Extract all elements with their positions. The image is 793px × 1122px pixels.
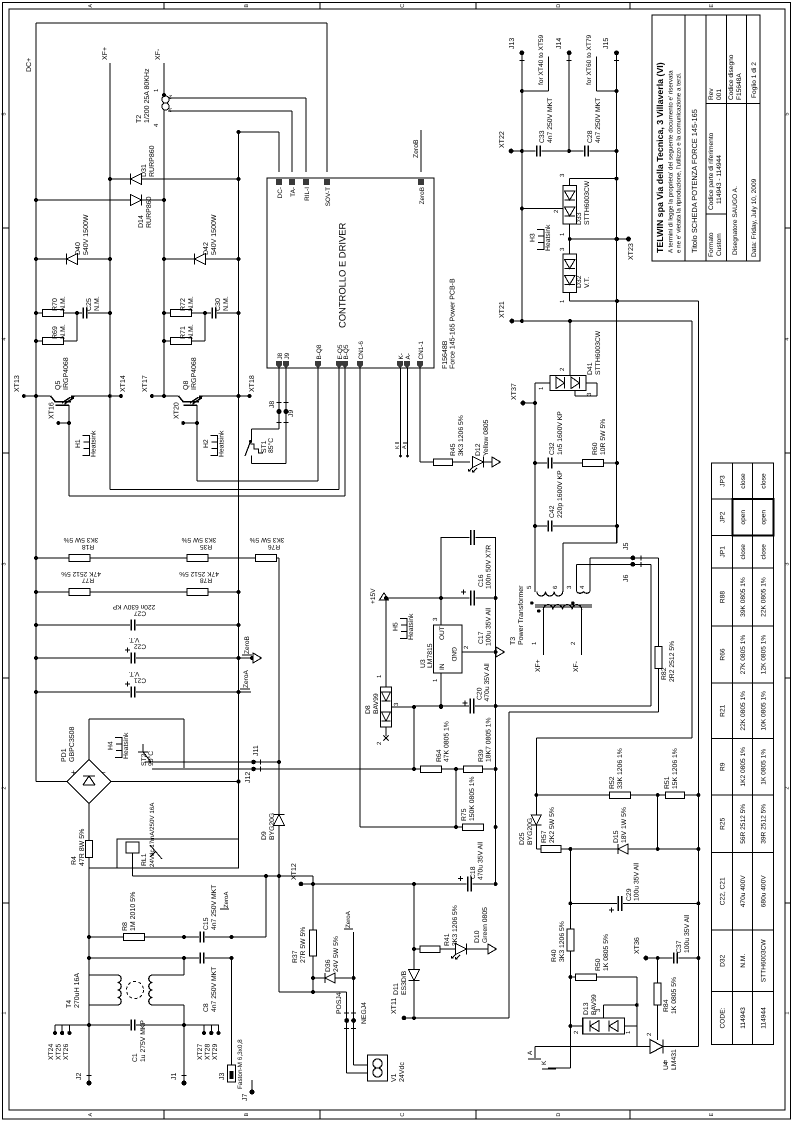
svg-text:XF+: XF+: [535, 659, 542, 672]
svg-text:ZeroA: ZeroA: [243, 669, 250, 688]
svg-text:XT29: XT29: [212, 1044, 219, 1060]
svg-text:4: 4: [784, 338, 790, 341]
connector J2: [76, 1073, 92, 1086]
svg-text:N.M.: N.M.: [188, 296, 195, 311]
svg-text:F15648B: F15648B: [442, 340, 449, 369]
svg-text:XF+: XF+: [102, 47, 109, 60]
svg-text:R35: R35: [200, 543, 212, 550]
svg-text:open: open: [760, 510, 767, 525]
wire C20 to J6 rail: [650, 564, 652, 706]
svg-text:540V 1500W: 540V 1500W: [83, 214, 90, 255]
dual diode D13 BAV99: [570, 994, 636, 1034]
capacitor C22 V.T. and net ZeroB: [34, 635, 261, 663]
zener D36 24V 5W 5%: [313, 936, 356, 983]
svg-text:100n 50V X7R: 100n 50V X7R: [486, 545, 493, 589]
svg-text:100u 35V All: 100u 35V All: [684, 914, 691, 953]
capacitor C42 220p 1600V KP: [533, 470, 619, 532]
svg-text:24Vdc 17mA/250V 16A: 24Vdc 17mA/250V 16A: [149, 802, 156, 867]
rail through R40: [551, 849, 574, 1028]
svg-text:1K2 0805 1%: 1K2 0805 1%: [740, 747, 747, 787]
connector J13: [509, 38, 524, 321]
resistor R69 N.M.: [34, 311, 79, 344]
svg-text:RIL-I: RIL-I: [304, 187, 311, 201]
svg-text:IRGP4068: IRGP4068: [191, 357, 198, 390]
svg-text:GND: GND: [450, 647, 457, 662]
svg-text:Codice parte di riferimento: Codice parte di riferimento: [708, 132, 715, 210]
controller top pins DC- TA- RIL-I SOV-T ZeroB: [276, 179, 426, 206]
svg-text:D15: D15: [613, 830, 620, 843]
svg-text:E: E: [709, 4, 715, 8]
svg-text:BYG20G: BYG20G: [527, 818, 534, 845]
svg-text:T2: T2: [136, 115, 143, 123]
svg-text:56R 2512 5%: 56R 2512 5%: [740, 804, 747, 844]
connector J6 and wire: [577, 562, 651, 582]
svg-text:ZeroB: ZeroB: [244, 635, 251, 654]
svg-text:B-Q5: B-Q5: [343, 344, 350, 359]
svg-text:Custom: Custom: [716, 233, 723, 256]
svg-text:1K 0805 1%: 1K 0805 1%: [760, 749, 767, 785]
wire XT12 branch to D11 XT11: [413, 884, 415, 1018]
terminal XT12 and wire row: [291, 863, 496, 886]
svg-text:K: K: [541, 1060, 548, 1065]
svg-text:4n7 250V MKT: 4n7 250V MKT: [547, 98, 554, 143]
svg-text:XT21: XT21: [499, 301, 506, 318]
resistor R84 1K 0805 5%: [654, 958, 678, 1040]
svg-text:33K 1206 1%: 33K 1206 1%: [617, 748, 624, 789]
svg-text:XT11: XT11: [391, 998, 398, 1014]
svg-text:J7: J7: [242, 1094, 249, 1102]
svg-text:XF-: XF-: [573, 661, 580, 672]
svg-text:D41: D41: [587, 362, 594, 375]
svg-text:STTH6003CW: STTH6003CW: [595, 330, 602, 375]
svg-text:D: D: [556, 4, 562, 8]
capacitor C20 470u 35V All: [414, 663, 651, 769]
svg-text:XT14: XT14: [120, 375, 127, 392]
svg-text:N.M.: N.M.: [740, 954, 747, 968]
resistor R8 1M 2010 5%: [87, 892, 266, 941]
wire D32 pin1 to right rail: [570, 299, 699, 1046]
svg-text:R39: R39: [478, 749, 485, 762]
svg-text:10K 0805 1%: 10K 0805 1%: [760, 691, 767, 731]
svg-text:2: 2: [2, 787, 8, 790]
diode D40 540V 1500W: [34, 214, 112, 264]
svg-text:ST1: ST1: [261, 440, 268, 453]
svg-text:Data: Friday, July 10, 2009: Data: Friday, July 10, 2009: [751, 178, 758, 257]
svg-text:J8: J8: [269, 401, 276, 408]
wire XF+ to E-Q5: [110, 368, 339, 490]
svg-text:C: C: [400, 1113, 406, 1117]
zener D15 18V 1W 5%: [613, 807, 628, 854]
terminals XT24 XT25 XT26: [48, 1025, 72, 1060]
svg-text:R8: R8: [122, 922, 129, 931]
resistor R70 N.M. and capacitor C25 N.M.: [34, 296, 112, 318]
svg-text:e ne e' vietata la riproduzion: e ne e' vietata la riproduzione, l'utili…: [676, 72, 683, 253]
svg-text:R71: R71: [180, 326, 187, 339]
svg-text:RL1: RL1: [141, 853, 148, 866]
wire ST2 to J12 / R64 R39 row: [152, 767, 496, 783]
svg-text:XT16: XT16: [49, 402, 56, 419]
svg-text:Power Transformer: Power Transformer: [517, 585, 525, 645]
svg-text:N.M.: N.M.: [94, 296, 101, 311]
svg-text:V.T.: V.T.: [128, 636, 139, 643]
svg-text:39K 0805 1%: 39K 0805 1%: [740, 577, 747, 617]
svg-text:XF-: XF-: [155, 48, 162, 60]
svg-text:E: E: [709, 1112, 715, 1116]
svg-text:D32: D32: [719, 954, 726, 966]
svg-text:close: close: [760, 544, 767, 560]
svg-text:D: D: [556, 1113, 562, 1117]
svg-text:LM431: LM431: [671, 1049, 678, 1070]
svg-text:XT26: XT26: [63, 1044, 70, 1060]
svg-text:85°C: 85°C: [268, 438, 275, 453]
svg-text:+15V: +15V: [370, 588, 377, 604]
thermostat ST1 85C: [245, 438, 275, 458]
resistor R4 47R 8W 5%: [71, 804, 117, 869]
svg-text:470u 400V: 470u 400V: [740, 875, 747, 908]
left rail to T4: [88, 868, 90, 975]
svg-text:PD1: PD1: [61, 748, 68, 762]
wire R51/R52 junction down: [657, 795, 659, 849]
connector J3 Faston: [219, 958, 244, 1089]
wire ST2 to J11: [152, 745, 281, 764]
svg-text:IRGP4068: IRGP4068: [63, 357, 70, 390]
svg-text:J3: J3: [219, 1073, 226, 1081]
svg-text:ZeroB: ZeroB: [413, 139, 420, 158]
svg-text:4n7 250V MKT: 4n7 250V MKT: [595, 98, 602, 143]
svg-text:27R 5W 5%: 27R 5W 5%: [300, 927, 307, 963]
svg-text:220p 1600V KP: 220p 1600V KP: [557, 470, 564, 518]
svg-text:R18: R18: [82, 543, 94, 550]
svg-text:BYG20G: BYG20G: [269, 813, 276, 840]
svg-text:BAV99: BAV99: [373, 693, 380, 714]
svg-text:C18: C18: [470, 866, 477, 879]
wire DC+ top rail to SOV-T: [36, 23, 327, 172]
svg-text:OUT: OUT: [439, 626, 446, 640]
connector J8 J9 below controller: [252, 368, 296, 464]
svg-text:J1: J1: [171, 1073, 178, 1081]
resistor R64 47K 0805 1%: [412, 721, 458, 772]
shunt regulator U4 LM431: [535, 1032, 698, 1070]
svg-text:1u 275V MKP: 1u 275V MKP: [140, 1020, 147, 1062]
battery V1 24Vdc: [368, 1055, 407, 1082]
svg-text:H2: H2: [203, 439, 210, 448]
svg-text:XT22: XT22: [499, 131, 506, 148]
svg-text:1K 0805 5%: 1K 0805 5%: [671, 977, 678, 1014]
svg-text:GBPC3508: GBPC3508: [69, 726, 76, 762]
svg-text:D13: D13: [583, 1002, 590, 1015]
PCB name label: [442, 278, 457, 369]
svg-text:1: 1: [2, 1012, 8, 1015]
capacitor C15 4n7 250V MKT: [199, 885, 218, 943]
svg-text:24Vdc: 24Vdc: [398, 1062, 406, 1082]
svg-text:150K 0805 1%: 150K 0805 1%: [469, 776, 476, 821]
svg-text:R57: R57: [541, 830, 548, 843]
svg-text:Heatsink: Heatsink: [219, 430, 226, 457]
svg-text:3: 3: [2, 563, 8, 566]
svg-text:2: 2: [784, 787, 790, 790]
svg-text:270uH 16A: 270uH 16A: [74, 973, 81, 1008]
svg-text:B: B: [244, 4, 250, 8]
svg-text:J11: J11: [253, 745, 260, 756]
svg-text:3K3 5W 5%: 3K3 5W 5%: [181, 536, 216, 543]
svg-text:F15648A: F15648A: [736, 73, 743, 100]
svg-text:−: −: [101, 768, 106, 777]
svg-text:Heatsink: Heatsink: [91, 430, 98, 457]
capacitor C18 470u 35V All: [458, 841, 498, 891]
transistor Q8 IRGP4068 with terminals XT17 XT18 XT20: [142, 357, 256, 481]
heatsink H1: [83, 435, 90, 456]
transformer T3 Power Transformer: [510, 526, 617, 672]
controller K- A- stubs: [395, 368, 409, 457]
svg-text:IN: IN: [439, 663, 446, 670]
svg-text:T3: T3: [510, 637, 517, 645]
label for XT40 to XT59: [520, 34, 549, 92]
net stub A: [527, 1047, 541, 1060]
svg-text:SOV-T: SOV-T: [325, 187, 332, 206]
controller module U CONTROLLO E DRIVER: [267, 178, 434, 368]
svg-text:CODE:: CODE:: [719, 1007, 726, 1028]
svg-text:3K3 5W 5%: 3K3 5W 5%: [249, 536, 284, 543]
svg-text:R66: R66: [719, 648, 726, 660]
bridge rectifier PD1 GBPC3508: [36, 692, 111, 804]
diode D31 RURP860: [108, 145, 240, 184]
svg-text:3K3 1206 5%: 3K3 1206 5%: [452, 905, 459, 946]
label for XT60 to XT79: [586, 34, 618, 92]
svg-text:CONTROLLO E DRIVER: CONTROLLO E DRIVER: [337, 223, 348, 328]
LED D12 Yellow 0805: [469, 419, 501, 472]
svg-text:100u 35V All: 100u 35V All: [486, 607, 493, 646]
svg-text:T4: T4: [66, 1000, 73, 1008]
svg-text:220n 630V KP: 220n 630V KP: [112, 603, 155, 610]
svg-text:V.T.: V.T.: [128, 670, 139, 677]
svg-text:C25: C25: [86, 298, 93, 311]
svg-text:27K 0805 1%: 27K 0805 1%: [740, 635, 747, 675]
svg-text:H4: H4: [108, 741, 115, 750]
connector J14: [556, 38, 571, 151]
svg-text:Yellow 0805: Yellow 0805: [483, 419, 490, 456]
svg-text:Green 0805: Green 0805: [482, 907, 489, 943]
svg-text:D9: D9: [261, 831, 268, 840]
svg-text:R72: R72: [180, 298, 187, 311]
diode D9 BYG20G: [261, 558, 285, 992]
svg-text:2R2 2512 5%: 2R2 2512 5%: [669, 641, 676, 682]
wire DC- from controller: [239, 132, 280, 839]
svg-text:XT37: XT37: [511, 383, 518, 400]
svg-text:K: K: [395, 445, 401, 449]
svg-text:TA-: TA-: [290, 187, 297, 197]
svg-text:CN1-1: CN1-1: [418, 341, 425, 360]
svg-text:1M 2010 5%: 1M 2010 5%: [130, 892, 137, 931]
svg-text:114943: 114943: [740, 1007, 747, 1029]
wire T4 to C1 row and J2: [89, 958, 184, 1083]
svg-text:90°C: 90°C: [148, 751, 155, 766]
svg-text:D40: D40: [75, 242, 82, 255]
wire DC+ left rail: [26, 23, 36, 782]
svg-text:18V 1W 5%: 18V 1W 5%: [621, 807, 628, 843]
svg-text:XT27: XT27: [197, 1044, 204, 1060]
vertical rails beside U3: [441, 537, 498, 884]
svg-text:A: A: [88, 4, 94, 8]
wire CN1-6 long run to R75: [360, 368, 462, 827]
svg-text:ST2: ST2: [141, 753, 148, 766]
svg-text:5: 5: [2, 113, 8, 116]
wire Q5 emitter to B-Q5: [69, 368, 345, 496]
svg-text:470u 35V All: 470u 35V All: [484, 663, 491, 702]
net label ZeroB at controller: [413, 130, 421, 172]
svg-text:680u 400V: 680u 400V: [760, 875, 767, 908]
svg-text:47K 0805 1%: 47K 0805 1%: [444, 721, 451, 762]
svg-text:JP2: JP2: [719, 511, 726, 523]
transformer T2: [136, 68, 306, 172]
svg-text:1K 0805 5%: 1K 0805 5%: [603, 934, 610, 971]
svg-text:10R 5W 5%: 10R 5W 5%: [600, 419, 607, 455]
terminal XT37: [511, 383, 535, 405]
diode D8 BAV99: [365, 596, 416, 745]
svg-text:470u 35V All: 470u 35V All: [478, 841, 485, 880]
svg-text:R76: R76: [268, 543, 280, 550]
svg-text:R40: R40: [551, 949, 558, 962]
svg-text:XT12: XT12: [291, 863, 298, 880]
svg-text:Force 145-165 Power PCB-B: Force 145-165 Power PCB-B: [450, 278, 457, 369]
svg-text:NEGJ4: NEGJ4: [361, 1002, 368, 1024]
svg-text:J13: J13: [509, 38, 516, 49]
svg-text:C1: C1: [132, 1053, 139, 1062]
svg-text:3: 3: [784, 563, 790, 566]
svg-text:for XT40 to XT59: for XT40 to XT59: [538, 34, 545, 85]
svg-text:R37: R37: [292, 950, 299, 963]
svg-text:XT28: XT28: [205, 1044, 212, 1060]
svg-text:Disegnatore SAUGO A.: Disegnatore SAUGO A.: [732, 186, 739, 255]
svg-text:Titolo SCHEDA POTENZA FORCE: Titolo SCHEDA POTENZA FORCE 145-165: [690, 109, 699, 253]
svg-text:POSJ4: POSJ4: [336, 992, 343, 1014]
svg-text:K-: K-: [398, 353, 405, 359]
capacitor C27 220n 630V KP: [34, 603, 240, 631]
capacitor C17 100u 35V All: [439, 590, 492, 647]
heatsink H4: [115, 737, 122, 758]
svg-text:TELWIN spa Via della Tecnica,: TELWIN spa Via della Tecnica, 3 Villaver…: [655, 62, 665, 253]
svg-text:J9: J9: [284, 352, 291, 359]
wire C15 junction up to RL1 wire: [220, 874, 268, 937]
LED D10 Green 0805: [447, 907, 497, 959]
connector J15: [603, 38, 619, 543]
svg-text:D12: D12: [475, 443, 482, 456]
svg-text:Codice disegno: Codice disegno: [728, 54, 735, 100]
svg-text:XT23: XT23: [628, 243, 635, 260]
svg-text:JP3: JP3: [719, 475, 726, 487]
svg-text:J8: J8: [277, 352, 284, 359]
svg-text:24V 5W 5%: 24V 5W 5%: [333, 936, 340, 972]
svg-text:A: A: [527, 1050, 534, 1055]
svg-text:A: A: [402, 445, 408, 449]
svg-text:1: 1: [784, 1012, 790, 1015]
svg-text:V1: V1: [391, 1073, 398, 1082]
connector J7: [242, 1080, 255, 1101]
heatsink H5: [400, 618, 407, 639]
choke T4 270uH 16A: [66, 973, 184, 1008]
svg-text:XT18: XT18: [249, 375, 256, 392]
svg-text:B: B: [244, 1112, 250, 1116]
diode D42 540V 1500W: [162, 214, 240, 264]
svg-text:STTH6003CW: STTH6003CW: [760, 939, 767, 983]
svg-text:XT25: XT25: [56, 1044, 63, 1060]
svg-text:3: 3: [169, 106, 172, 112]
svg-text:R45: R45: [450, 443, 457, 456]
svg-text:DC+: DC+: [26, 58, 33, 72]
net ZeroA stub at D36: [344, 910, 354, 978]
diode D14 RURP860: [34, 195, 166, 229]
svg-text:D14: D14: [138, 215, 145, 228]
svg-text:H1: H1: [75, 439, 82, 448]
svg-text:JP1: JP1: [719, 546, 726, 558]
net stub K: [541, 1026, 570, 1069]
svg-text:R4: R4: [71, 856, 78, 865]
svg-text:R70: R70: [52, 298, 59, 311]
svg-text:C29: C29: [626, 888, 633, 901]
svg-text:Q5: Q5: [55, 381, 62, 390]
svg-text:U3: U3: [420, 659, 427, 668]
svg-text:B-Q8: B-Q8: [316, 344, 323, 359]
connector J1: [171, 1073, 187, 1086]
svg-text:XT13: XT13: [14, 375, 21, 392]
svg-text:D36: D36: [325, 959, 332, 972]
svg-text:Q8: Q8: [183, 381, 190, 390]
capacitor C16 100n 50V X7R: [441, 530, 496, 589]
svg-text:Heatsink: Heatsink: [408, 613, 415, 640]
svg-text:4n7 250V MKT: 4n7 250V MKT: [211, 967, 218, 1012]
svg-text:15K 1206 1%: 15K 1206 1%: [672, 748, 679, 789]
wire to POSJ4: [279, 990, 368, 1073]
svg-text:4n7 250V MKT: 4n7 250V MKT: [211, 885, 218, 930]
net +15V arrow: [370, 588, 496, 604]
svg-text:C22, C21: C22, C21: [719, 877, 726, 905]
resistor R57 2K2 5W 5% row: [536, 807, 700, 852]
svg-text:A termini di legge la propriet: A termini di legge la proprieta' del seg…: [668, 70, 675, 253]
dual diode D33 STTH6003CW: [520, 173, 618, 254]
resistor R39 18K7 0805 1%: [464, 717, 498, 772]
connector pin tick marks: [87, 61, 642, 1076]
svg-text:5: 5: [784, 113, 790, 116]
capacitor C21 V.T. and net ZeroA: [34, 669, 251, 697]
svg-text:47R 8W 5%: 47R 8W 5%: [79, 829, 86, 866]
svg-text:C15: C15: [203, 917, 210, 930]
resistor R50 1K 0805 5%: [570, 934, 638, 1047]
capacitor C1 1u 275V MKP: [55, 1020, 219, 1063]
resistor R71 N.M.: [162, 311, 207, 344]
relay RL1 24Vdc with box: [117, 802, 313, 876]
svg-text:D32: D32: [576, 275, 583, 288]
svg-text:R69: R69: [52, 326, 59, 339]
svg-text:J14: J14: [556, 38, 563, 49]
svg-text:RURP860: RURP860: [149, 145, 156, 177]
svg-text:N.M.: N.M.: [188, 324, 195, 339]
dual diode D32 V.T.: [559, 247, 591, 303]
svg-text:Rev: Rev: [708, 88, 715, 100]
svg-text:close: close: [760, 473, 767, 489]
svg-text:D11: D11: [393, 983, 400, 995]
svg-text:D33: D33: [576, 212, 583, 225]
svg-text:N.M.: N.M.: [60, 296, 67, 311]
resistors R18 R35 R76 3K3 5W 5% series row: [34, 536, 284, 562]
svg-text:Heatsink: Heatsink: [123, 732, 130, 759]
svg-text:540V 1500W: 540V 1500W: [211, 214, 218, 255]
svg-text:H3: H3: [530, 233, 537, 242]
svg-text:N.M.: N.M.: [223, 296, 230, 311]
svg-text:RURP860: RURP860: [146, 196, 153, 228]
svg-text:R75: R75: [461, 808, 468, 821]
capacitor C32 1n5 1600V KP and resistor R60 10R 5W 5%: [533, 411, 619, 469]
wire Q8 emitter to B-Q8: [197, 368, 318, 481]
svg-text:C33: C33: [539, 130, 546, 143]
